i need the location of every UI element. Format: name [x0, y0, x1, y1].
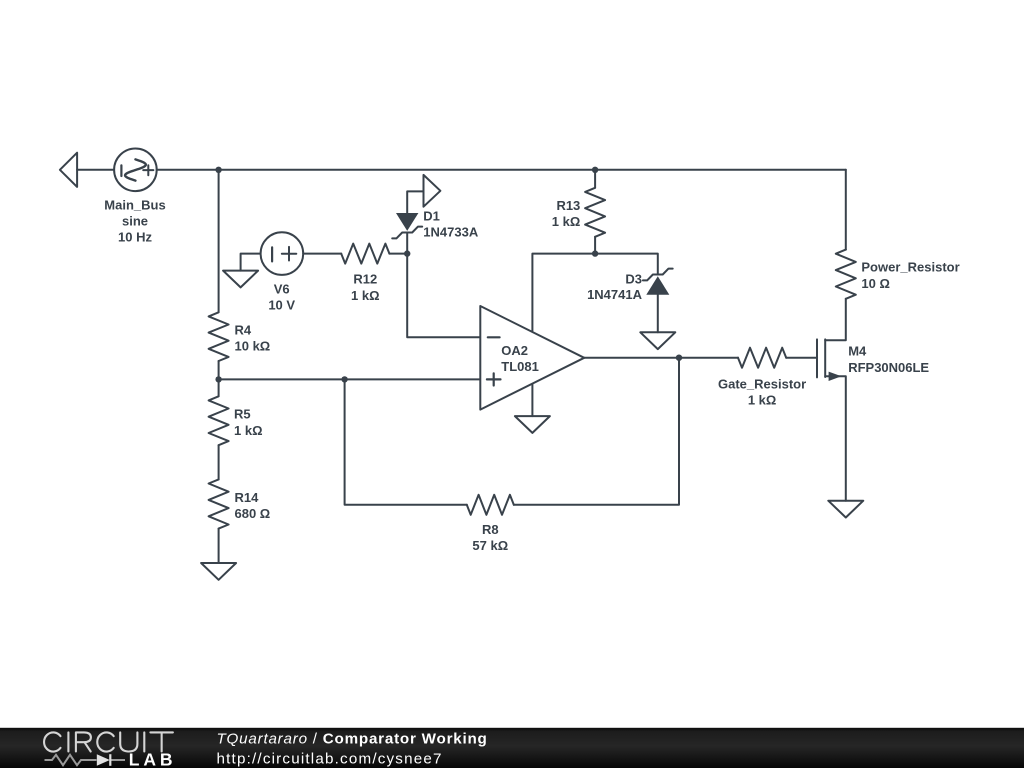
svg-text:Power_Resistor: Power_Resistor [861, 260, 959, 275]
svg-text:V6: V6 [274, 281, 290, 296]
svg-text:10 kΩ: 10 kΩ [235, 339, 271, 354]
svg-text:TL081: TL081 [501, 359, 539, 374]
svg-text:Gate_Resistor: Gate_Resistor [718, 377, 806, 392]
svg-text:1 kΩ: 1 kΩ [748, 393, 777, 408]
svg-text:TQuartararo / Comparator Worki: TQuartararo / Comparator Working [217, 731, 488, 748]
svg-text:1N4741A: 1N4741A [587, 287, 643, 302]
svg-text:1 kΩ: 1 kΩ [351, 288, 380, 303]
svg-text:680 Ω: 680 Ω [235, 506, 271, 521]
svg-text:57 kΩ: 57 kΩ [472, 538, 508, 553]
svg-text:RFP30N06LE: RFP30N06LE [848, 360, 929, 375]
svg-text:OA2: OA2 [501, 343, 528, 358]
svg-text:http://circuitlab.com/cysnee7: http://circuitlab.com/cysnee7 [217, 750, 443, 767]
svg-text:1N4733A: 1N4733A [423, 225, 479, 240]
svg-text:R8: R8 [482, 522, 499, 537]
svg-text:Main_Bus: Main_Bus [104, 198, 165, 213]
svg-text:R14: R14 [235, 490, 260, 505]
svg-text:M4: M4 [848, 344, 867, 359]
svg-text:sine: sine [122, 214, 148, 229]
svg-text:R12: R12 [353, 272, 377, 287]
svg-text:LAB: LAB [129, 750, 177, 768]
svg-text:10 V: 10 V [268, 298, 295, 313]
svg-text:10 Hz: 10 Hz [118, 230, 152, 245]
svg-text:1 kΩ: 1 kΩ [552, 214, 581, 229]
svg-text:10 Ω: 10 Ω [861, 276, 890, 291]
svg-text:R4: R4 [235, 322, 252, 337]
svg-text:R13: R13 [556, 198, 580, 213]
svg-text:R5: R5 [234, 406, 251, 421]
svg-text:1 kΩ: 1 kΩ [234, 423, 263, 438]
svg-text:D1: D1 [423, 209, 440, 224]
svg-text:D3: D3 [625, 271, 642, 286]
